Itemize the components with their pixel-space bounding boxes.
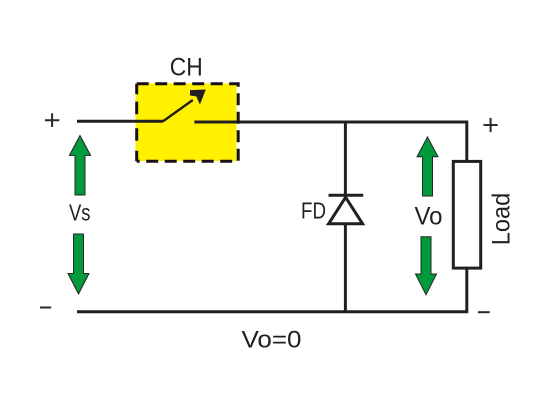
svg-text:Vs: Vs [69, 200, 91, 226]
svg-text:Vo=0: Vo=0 [242, 327, 302, 354]
svg-text:FD: FD [301, 198, 326, 224]
svg-text:Load: Load [487, 193, 515, 246]
svg-text:Vo: Vo [415, 203, 443, 231]
svg-text:CH: CH [170, 54, 203, 82]
